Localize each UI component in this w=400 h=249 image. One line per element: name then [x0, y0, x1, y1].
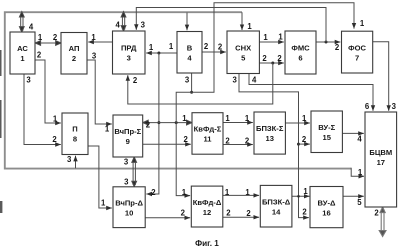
svg-text:3: 3	[233, 76, 238, 85]
svg-text:ВчПр-Δ: ВчПр-Δ	[115, 199, 143, 208]
wire FOS output to BTsVM input 3	[373, 42, 389, 111]
svg-text:ВчПр-Σ: ВчПр-Σ	[114, 127, 141, 136]
node artifact crossing at BPZK-Delta line	[297, 195, 300, 198]
wire node to VU-Sigma input 2	[299, 143, 310, 145]
svg-text:8: 8	[73, 135, 77, 144]
svg-text:6: 6	[298, 54, 302, 63]
wire PRD to AP input 1	[88, 41, 112, 43]
svg-text:1: 1	[278, 33, 283, 42]
node on V-PRD line	[157, 52, 160, 55]
svg-text:11: 11	[203, 135, 212, 144]
block BPZK-Delta 14	[260, 185, 292, 227]
wire P output to VchPr-Delta input 1	[88, 146, 112, 208]
block VchPr-Delta 10	[113, 187, 145, 228]
svg-text:ВУ-Σ: ВУ-Σ	[318, 123, 335, 132]
svg-text:1: 1	[101, 198, 106, 207]
wire V to PRD input 1 with branch node	[146, 52, 177, 54]
svg-text:1: 1	[303, 187, 308, 196]
svg-text:3: 3	[124, 177, 129, 186]
block KvFd-Delta 12	[191, 186, 223, 227]
svg-text:2: 2	[72, 54, 76, 63]
wire AS link 4 to bus (bidirectional)	[19, 12, 24, 32]
bus wire (gray frame: top, left, bottom into BTsVM input 1)	[5, 12, 351, 168]
svg-text:2: 2	[184, 135, 189, 144]
node junction at sigma rail x176	[175, 121, 178, 124]
svg-text:1: 1	[302, 114, 307, 123]
block AS 1	[10, 32, 35, 74]
svg-text:2: 2	[225, 137, 230, 146]
wire bus to V top	[186, 13, 188, 31]
block KvFd-Sigma 11	[192, 113, 223, 155]
svg-text:4: 4	[357, 134, 362, 143]
svg-text:1: 1	[182, 188, 187, 197]
bus wire drop to node SNH input 1	[241, 12, 243, 30]
wire V to SNH input 2	[202, 51, 226, 53]
wire KvFd-Delta output 2 to BPZK-Delta input 2	[223, 216, 259, 218]
svg-text:2: 2	[204, 42, 209, 51]
wire node left down to KvFd-Delta input 1	[176, 92, 191, 195]
svg-text:КвФд-Σ: КвФд-Σ	[194, 125, 222, 134]
block BTsVM 17	[365, 112, 397, 207]
svg-text:ПРД: ПРД	[121, 44, 137, 53]
wire BTsVM link 2 external (bidirectional, bottom)	[379, 207, 386, 237]
svg-text:2: 2	[374, 209, 379, 218]
svg-text:13: 13	[265, 134, 273, 143]
node junction at sigma rail x159	[157, 121, 160, 124]
svg-text:ФМС: ФМС	[291, 44, 310, 53]
wire node up over to PRD input 3	[136, 8, 326, 43]
pin labels top row	[29, 19, 365, 63]
svg-text:ФОС: ФОС	[348, 44, 366, 53]
wire AS output 3 to P input 2	[24, 74, 61, 145]
svg-text:1: 1	[358, 168, 363, 177]
svg-text:4: 4	[116, 21, 121, 30]
wire P input 3 from bus	[75, 156, 77, 168]
svg-text:2: 2	[37, 51, 42, 60]
block V 4	[177, 32, 202, 74]
svg-text:3: 3	[67, 155, 72, 164]
svg-text:2: 2	[302, 135, 307, 144]
svg-text:4: 4	[252, 76, 257, 85]
wire node to FOS input 1 via top line	[192, 3, 354, 93]
block VU-Delta 16	[310, 187, 343, 228]
svg-text:5: 5	[357, 198, 362, 207]
svg-text:В: В	[187, 44, 193, 53]
svg-text:4: 4	[29, 23, 34, 32]
svg-text:БПЗК-Σ: БПЗК-Σ	[256, 124, 284, 133]
node on SNH-FMS lower line	[271, 62, 274, 65]
svg-text:16: 16	[322, 209, 330, 218]
svg-text:1: 1	[53, 114, 58, 123]
wire AS output 2 to P input 1	[35, 60, 61, 123]
svg-text:2: 2	[52, 135, 57, 144]
block PRD 3	[113, 31, 146, 74]
svg-text:3: 3	[26, 76, 31, 85]
block VchPr-Sigma 9	[113, 115, 143, 157]
svg-text:АС: АС	[17, 44, 28, 53]
wire VchPr-Delta output to KvFd-Delta input 2	[145, 217, 190, 219]
wire node down to VchPr-Sigma input 2 rail and VchPr-Delta input 2	[146, 53, 159, 194]
node under V	[190, 91, 193, 94]
svg-text:1: 1	[149, 43, 154, 52]
wire V output 3 down with node	[191, 74, 193, 93]
svg-text:2: 2	[146, 121, 151, 130]
wire VchPr-Sigma output to KvFd-Sigma input 2	[143, 143, 191, 145]
wire node down around to PRD input 2	[128, 63, 273, 104]
svg-text:1: 1	[169, 42, 174, 51]
svg-text:3: 3	[127, 54, 131, 63]
svg-text:2: 2	[262, 54, 267, 63]
block BPZK-Sigma 13	[254, 112, 285, 154]
svg-text:1: 1	[245, 114, 250, 123]
svg-text:БПЗК-Δ: БПЗК-Δ	[262, 198, 291, 207]
svg-text:П: П	[72, 125, 77, 134]
svg-text:СНХ: СНХ	[235, 44, 251, 53]
svg-text:1: 1	[225, 188, 230, 197]
svg-text:12: 12	[203, 208, 211, 217]
block VU-Sigma 15	[311, 111, 342, 153]
wire VU-Delta output to BTsVM input 5	[343, 195, 364, 197]
wire AS-AP bidirectional 1-2	[35, 41, 61, 46]
wire SNH output 4 to BTsVM input 6	[249, 74, 373, 111]
svg-text:15: 15	[322, 133, 331, 142]
wire KvFd-Sigma output 2 to BPZK-Sigma input 2	[223, 144, 253, 146]
block SNH 5	[227, 31, 259, 74]
wire KvFd-Sigma output 1 to BPZK-Sigma input 1	[223, 122, 253, 124]
svg-text:2: 2	[246, 209, 251, 218]
svg-text:2: 2	[133, 76, 138, 85]
svg-text:3: 3	[124, 157, 129, 166]
svg-text:1: 1	[263, 33, 268, 42]
svg-text:ВУ-Δ: ВУ-Δ	[318, 199, 336, 208]
bus wire step into BTsVM input 1	[351, 168, 364, 177]
svg-text:1: 1	[360, 19, 365, 28]
svg-text:2: 2	[226, 208, 231, 217]
block P 8	[62, 113, 88, 155]
wire rail VchPr-Sigma 2 to KvFd-Sigma 1 (arrows both ends)	[143, 120, 192, 125]
svg-text:1: 1	[38, 33, 43, 42]
node on FMS-FOS line	[325, 41, 328, 44]
svg-text:3: 3	[185, 76, 190, 85]
svg-text:КвФд-Δ: КвФд-Δ	[193, 198, 222, 207]
block FMS 6	[285, 31, 316, 74]
svg-text:2: 2	[181, 208, 186, 217]
svg-text:2: 2	[151, 188, 156, 197]
block FOS 7	[342, 31, 373, 73]
wire KvFd-Delta output 1 to BPZK-Delta input 1	[223, 194, 259, 196]
wire SNH output 1 to FMS input 1	[259, 41, 283, 43]
wire SNH output 3 down to VU-Sigma 2 and VU-Delta 2	[239, 74, 309, 218]
svg-text:1: 1	[245, 188, 250, 197]
svg-text:7: 7	[355, 54, 359, 63]
wire PRD link 4 to bus (bidirectional)	[121, 12, 126, 31]
pin labels under top row	[26, 76, 257, 86]
svg-text:2: 2	[245, 137, 250, 146]
pin labels bottom row	[101, 157, 379, 218]
svg-text:1: 1	[105, 125, 110, 134]
wire BPZK-Sigma output to VU-Sigma input 1	[285, 122, 309, 124]
svg-text:3: 3	[141, 21, 146, 30]
svg-text:10: 10	[125, 209, 133, 218]
svg-text:2: 2	[302, 208, 307, 217]
svg-text:3: 3	[92, 52, 97, 61]
svg-text:2: 2	[277, 54, 282, 63]
wire FMS output to FOS input 2	[316, 41, 340, 43]
svg-text:14: 14	[272, 208, 281, 217]
svg-text:2: 2	[53, 33, 58, 42]
wire BPZK-Delta output to VU-Delta input 1	[292, 195, 310, 197]
node on vertical for VU-Sigma input 2	[297, 143, 300, 146]
block AP 2	[61, 33, 87, 75]
svg-text:6: 6	[365, 102, 370, 111]
wire VU-Sigma output to BTsVM input 4	[342, 132, 363, 134]
svg-text:АП: АП	[69, 44, 80, 53]
wire VchPr link 3 Sigma-Delta (bidirectional)	[132, 157, 137, 187]
svg-text:Фиг. 1: Фиг. 1	[195, 239, 219, 248]
svg-text:1: 1	[91, 33, 96, 42]
svg-text:2: 2	[335, 43, 340, 52]
svg-text:1: 1	[225, 114, 230, 123]
scan edge artifacts	[0, 50, 2, 213]
wire AP output 3 to VchPr-Sigma input 1	[87, 60, 112, 124]
wire SNH output 2 to FMS input 2	[259, 62, 283, 64]
svg-text:БЦВМ: БЦВМ	[369, 148, 392, 157]
pin labels middle row	[52, 102, 396, 177]
svg-text:17: 17	[377, 158, 385, 167]
svg-text:1: 1	[247, 22, 252, 31]
svg-text:9: 9	[126, 137, 130, 146]
svg-text:3: 3	[392, 102, 397, 111]
svg-text:2: 2	[218, 43, 223, 52]
svg-text:1: 1	[182, 114, 187, 123]
